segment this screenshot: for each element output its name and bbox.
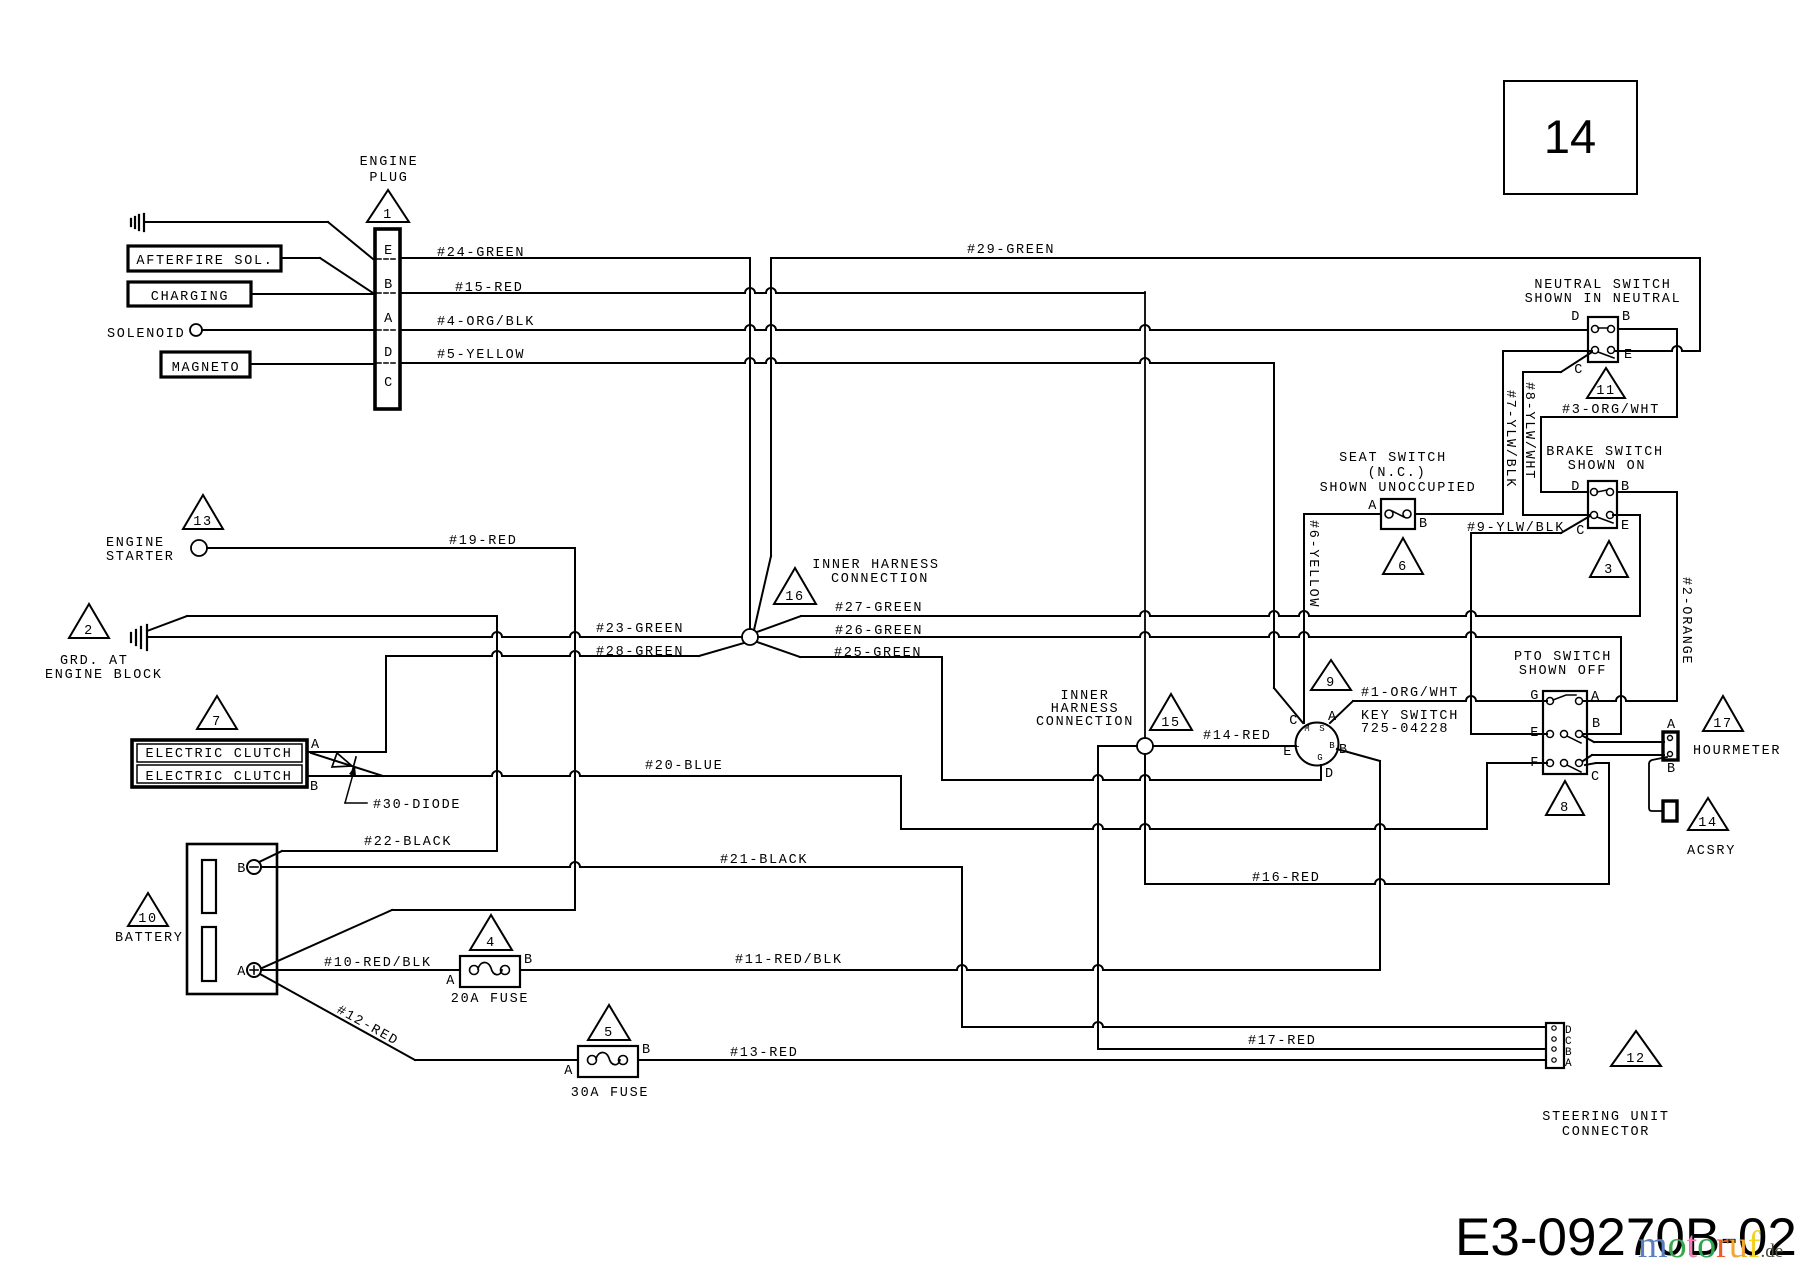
PTO contacts row F-C: [1547, 760, 1554, 767]
svg-text:#22-BLACK: #22-BLACK: [364, 835, 452, 850]
wire #22-BLACK: [259, 851, 282, 862]
svg-text:#8-YLW/WHT: #8-YLW/WHT: [1521, 382, 1536, 480]
svg-text:INNER HARNESS: INNER HARNESS: [812, 558, 939, 573]
svg-text:#10-RED/BLK: #10-RED/BLK: [324, 956, 432, 971]
wire #8-YLW/WHT vertical: [1522, 372, 1524, 515]
wire node 15 west branch: [1098, 745, 1137, 747]
svg-text:GRD. AT: GRD. AT: [60, 654, 129, 669]
wire #21-BLACK: [261, 862, 962, 867]
wire #20-BLUE: [309, 771, 901, 776]
triangle ref 7 (electric clutch): [197, 696, 237, 729]
svg-text:ENGINE: ENGINE: [106, 536, 165, 551]
wire #2-ORANGE vertical: [1676, 492, 1678, 701]
fuse F4 element: [470, 966, 479, 975]
wire #27-GREEN: [757, 616, 801, 632]
svg-text:#27-GREEN: #27-GREEN: [835, 601, 923, 616]
brake switch S3 box: [1588, 481, 1617, 528]
steering pin B: [1552, 1047, 1556, 1051]
svg-text:#1-ORG/WHT: #1-ORG/WHT: [1361, 686, 1459, 701]
wire #19-RED vertical: [574, 548, 576, 910]
wire key switch D feed: [942, 775, 1321, 780]
wire #29-GREEN: [771, 257, 1700, 259]
svg-text:#11-RED/BLK: #11-RED/BLK: [735, 953, 843, 968]
component box AFTERFIRE SOL.: [128, 246, 281, 271]
svg-text:#4-ORG/BLK: #4-ORG/BLK: [437, 315, 535, 330]
svg-text:D: D: [1571, 480, 1581, 495]
neutral switch contacts bottom: [1592, 347, 1599, 354]
svg-text:SOLENOID: SOLENOID: [107, 327, 185, 342]
svg-text:#3-ORG/WHT: #3-ORG/WHT: [1562, 403, 1660, 418]
svg-text:BRAKE SWITCH: BRAKE SWITCH: [1546, 445, 1664, 460]
triangle ref 2 (ground at engine block): [69, 604, 109, 638]
triangle ref 4 (20A fuse): [470, 915, 512, 950]
triangle ref 5 (30A fuse): [588, 1005, 630, 1040]
wire #20-BLUE lower run to PTO F: [901, 824, 1487, 829]
svg-text:CHARGING: CHARGING: [151, 290, 229, 305]
wire #6-YELLOW horizontal to seat A: [1304, 513, 1381, 515]
diode leader line: [345, 767, 355, 803]
triangle ref 6 (seat switch): [1383, 538, 1423, 574]
wire seat B to neutral E riser (#7): [1415, 513, 1503, 515]
svg-text:B: B: [237, 862, 247, 877]
svg-text:12: 12: [1626, 1052, 1646, 1067]
svg-text:STARTER: STARTER: [106, 550, 175, 565]
wire #8 to brake C: [1523, 514, 1590, 516]
svg-text:G: G: [1530, 689, 1540, 704]
wire solenoid to plug pin A: [202, 329, 375, 331]
wire #15-RED vertical to node 15: [1144, 292, 1146, 738]
svg-text:C: C: [1576, 524, 1586, 539]
svg-text:E: E: [1530, 726, 1540, 741]
pin dashes inside plug: [377, 258, 398, 260]
wire afterfire sol to plug pin B: [281, 257, 320, 259]
svg-text:PLUG: PLUG: [369, 171, 408, 186]
sheet number box 14: [1504, 81, 1637, 194]
wire #7-YLW/BLK vertical: [1502, 351, 1504, 514]
svg-text:CONNECTION: CONNECTION: [1036, 715, 1134, 730]
wire #3-ORG/WHT: [1541, 416, 1677, 418]
svg-text:5: 5: [604, 1026, 614, 1041]
svg-text:E: E: [1621, 519, 1631, 534]
svg-text:B: B: [524, 953, 534, 968]
wire neutral E west (#7 feed): [1503, 350, 1592, 352]
svg-text:#5-YELLOW: #5-YELLOW: [437, 348, 525, 363]
wire #28-GREEN branch vertical: [496, 616, 498, 851]
wire charging to plug pin B: [251, 293, 373, 295]
wire #15-RED: [400, 288, 1145, 293]
svg-text:MAGNETO: MAGNETO: [172, 361, 241, 376]
svg-text:A: A: [1565, 1058, 1572, 1070]
svg-text:CONNECTION: CONNECTION: [831, 572, 929, 587]
triangle ref 13 (engine starter): [183, 495, 223, 529]
triangle ref 10 (battery): [128, 893, 168, 926]
wire #25-GREEN vertical drop: [941, 657, 943, 780]
svg-text:#24-GREEN: #24-GREEN: [437, 246, 525, 261]
brake switch contacts bottom: [1591, 512, 1598, 519]
wire neutral B east: [1618, 328, 1677, 330]
svg-text:STEERING UNIT: STEERING UNIT: [1542, 1110, 1669, 1125]
svg-text:#19-RED: #19-RED: [449, 534, 518, 549]
svg-text:(N.C.): (N.C.): [1368, 466, 1427, 481]
svg-text:20A FUSE: 20A FUSE: [451, 992, 529, 1007]
svg-text:#6-YELLOW: #6-YELLOW: [1305, 520, 1320, 608]
svg-text:#9-YLW/BLK: #9-YLW/BLK: [1467, 521, 1565, 536]
brake switch contacts top: [1591, 489, 1598, 496]
fuse F4 box: [460, 956, 520, 987]
svg-text:15: 15: [1161, 716, 1181, 731]
wire brake B east to #2 riser: [1617, 491, 1677, 493]
wire ground to upper branch: [147, 616, 187, 631]
wire #3-ORG/WHT drop to brake D: [1540, 417, 1542, 492]
svg-text:#15-RED: #15-RED: [455, 281, 524, 296]
svg-text:G: G: [1317, 753, 1322, 763]
svg-text:B: B: [1592, 717, 1602, 732]
svg-text:9: 9: [1326, 676, 1336, 691]
battery terminal A positive: [247, 963, 261, 977]
wire #12-RED diagonal: [260, 974, 415, 1060]
svg-text:ELECTRIC CLUTCH: ELECTRIC CLUTCH: [145, 747, 292, 762]
seat switch contacts: [1385, 510, 1393, 518]
node 15 junction circle: [1137, 738, 1153, 754]
svg-text:16: 16: [785, 590, 805, 605]
svg-text:SHOWN UNOCCUPIED: SHOWN UNOCCUPIED: [1320, 481, 1477, 496]
wire #16-RED riser to PTO C: [1608, 763, 1610, 884]
svg-text:A: A: [384, 312, 394, 327]
svg-text:14: 14: [1698, 816, 1718, 831]
wire hourmeter B to ACSRY: [1649, 757, 1667, 811]
wire #5-YELLOW: [400, 358, 1274, 363]
svg-text:NEUTRAL SWITCH: NEUTRAL SWITCH: [1534, 278, 1671, 293]
svg-text:HOURMETER: HOURMETER: [1693, 744, 1781, 759]
battery cell slot 1: [202, 860, 216, 913]
svg-text:PTO SWITCH: PTO SWITCH: [1514, 650, 1612, 665]
svg-text:ENGINE BLOCK: ENGINE BLOCK: [45, 668, 163, 683]
wire #9-YLW/BLK: [1471, 532, 1561, 534]
svg-text:#17-RED: #17-RED: [1248, 1034, 1317, 1049]
wire #9 drop to PTO E: [1470, 533, 1472, 734]
svg-text:#26-GREEN: #26-GREEN: [835, 624, 923, 639]
svg-text:SEAT SWITCH: SEAT SWITCH: [1339, 451, 1447, 466]
hourmeter box: [1663, 732, 1678, 760]
svg-text:E: E: [1283, 745, 1293, 760]
wire PTO B east: [1583, 733, 1621, 735]
wire brake E east: [1613, 514, 1640, 516]
steering pin A: [1552, 1058, 1556, 1062]
svg-text:A: A: [1368, 499, 1378, 514]
battery terminal B negative: [247, 860, 261, 874]
wire #16-RED: [1145, 879, 1609, 884]
triangle ref 8 (PTO switch): [1546, 781, 1584, 815]
svg-text:ACSRY: ACSRY: [1687, 844, 1736, 859]
triangle ref 15: [1150, 694, 1192, 730]
svg-text:#28-GREEN: #28-GREEN: [596, 645, 684, 660]
svg-text:D: D: [384, 346, 394, 361]
wire key B to riser: [1337, 749, 1380, 761]
svg-text:8: 8: [1560, 801, 1570, 816]
svg-text:6: 6: [1398, 560, 1408, 575]
triangle ref 17 (hourmeter): [1703, 696, 1743, 731]
svg-text:#16-RED: #16-RED: [1252, 871, 1321, 886]
hourmeter pin A: [1668, 736, 1673, 741]
wire neutral C to #8 riser: [1523, 371, 1561, 373]
wire node 15 south vertical to #16-RED: [1144, 754, 1146, 884]
svg-text:A: A: [237, 965, 247, 980]
svg-text:#21-BLACK: #21-BLACK: [720, 853, 808, 868]
svg-text:B: B: [1329, 741, 1335, 751]
wire neutral C diagonal: [1561, 352, 1592, 372]
svg-text:S: S: [1319, 724, 1324, 734]
svg-text:SHOWN ON: SHOWN ON: [1568, 459, 1646, 474]
svg-text:#23-GREEN: #23-GREEN: [596, 622, 684, 637]
svg-text:D: D: [1325, 767, 1335, 782]
svg-text:ENGINE: ENGINE: [360, 155, 419, 170]
svg-text:B: B: [384, 278, 394, 293]
PTO contacts row E-B: [1547, 731, 1554, 738]
wire steering D feed: [962, 1022, 1546, 1027]
PTO contacts row G-A: [1547, 698, 1554, 705]
triangle ref 3 (brake switch): [1590, 541, 1628, 577]
triangle ref 16: [774, 568, 816, 604]
svg-text:ELECTRIC CLUTCH: ELECTRIC CLUTCH: [145, 770, 292, 785]
wire #25-GREEN: [757, 642, 800, 657]
svg-text:#2-ORANGE: #2-ORANGE: [1678, 577, 1693, 665]
svg-text:14: 14: [1544, 110, 1596, 163]
diode D30 symbol: [332, 753, 352, 767]
wire PTO B to hourmeter A: [1583, 736, 1594, 742]
steering pin D: [1552, 1026, 1556, 1030]
steering unit connector box: [1546, 1023, 1564, 1068]
node 16 junction circle: [742, 629, 758, 645]
fuse F5 element: [588, 1056, 597, 1065]
svg-text:30A FUSE: 30A FUSE: [571, 1086, 649, 1101]
svg-text:2: 2: [84, 624, 94, 639]
wire #20-BLUE vertical jog: [900, 776, 902, 829]
wire ground to plug pin E: [144, 221, 328, 223]
wire PTO A east to #2-ORANGE: [1583, 696, 1677, 701]
svg-text:A: A: [1667, 718, 1677, 733]
wire clutch A to #28-GREEN riser: [309, 751, 386, 753]
wire key B riser vertical: [1379, 761, 1381, 970]
svg-text:17: 17: [1713, 717, 1733, 732]
component box CHARGING: [128, 282, 251, 306]
wire #4-ORG/BLK: [400, 325, 1588, 330]
battery cell slot 2: [202, 927, 216, 981]
wire #19-RED to battery positive: [392, 909, 575, 911]
svg-text:725-04228: 725-04228: [1361, 722, 1449, 737]
connector J1 engine plug body: [375, 229, 400, 409]
svg-text:10: 10: [138, 912, 158, 927]
wire #13-RED: [638, 1059, 1546, 1061]
wire #26-GREEN drop to PTO B: [1620, 637, 1622, 734]
key switch S9 body circle: [1296, 723, 1339, 766]
wire #12-RED to fuse 5: [415, 1059, 578, 1061]
wire #26-GREEN: [758, 632, 1621, 637]
svg-text:B: B: [1622, 310, 1632, 325]
wire #23-GREEN: [147, 632, 742, 637]
PTO switch S8 box: [1543, 691, 1587, 774]
terminal circle solenoid: [190, 324, 202, 336]
wire #29-GREEN riser from node 16: [770, 258, 772, 556]
wire #6-YELLOW vertical to key C: [1303, 514, 1305, 723]
svg-text:B: B: [1419, 517, 1429, 532]
component box ELECTRIC CLUTCH (double): [132, 740, 307, 787]
steering pin C: [1552, 1037, 1556, 1041]
wire #5-YELLOW vertical and diagonal to key C: [1273, 363, 1275, 688]
svg-text:11: 11: [1596, 384, 1616, 399]
wire neutral E east to #29: [1615, 346, 1700, 351]
svg-text:#30-DIODE: #30-DIODE: [373, 798, 461, 813]
svg-text:3: 3: [1604, 563, 1614, 578]
wire #24-GREEN vertical drop to node 16: [749, 258, 751, 629]
wire #28-GREEN: [386, 651, 699, 656]
svg-text:SHOWN OFF: SHOWN OFF: [1519, 664, 1607, 679]
svg-text:D: D: [1571, 310, 1581, 325]
wire #29-GREEN drop to neutral E: [1699, 258, 1701, 351]
seat switch S6 box: [1381, 499, 1415, 529]
neutral switch S11 box: [1588, 317, 1618, 362]
svg-text:AFTERFIRE SOL.: AFTERFIRE SOL.: [136, 254, 273, 269]
svg-text:#14-RED: #14-RED: [1203, 729, 1272, 744]
wire node 15 west vertical: [1097, 746, 1099, 1049]
svg-text:A: A: [446, 974, 456, 989]
svg-text:B: B: [1667, 762, 1677, 777]
svg-text:B: B: [310, 780, 320, 795]
triangle ref 14 (ACSRY): [1688, 798, 1728, 830]
svg-text:C: C: [1591, 770, 1601, 785]
svg-text:#13-RED: #13-RED: [730, 1046, 799, 1061]
fuse F5 box: [578, 1046, 638, 1077]
wire #24-GREEN: [400, 257, 750, 259]
svg-text:A: A: [311, 738, 321, 753]
wire neutral B riser (#3) vertical: [1676, 329, 1678, 417]
ground symbol G2: [131, 625, 147, 650]
svg-text:#7-YLW/BLK: #7-YLW/BLK: [1502, 390, 1517, 488]
ACSRY connector box: [1663, 801, 1677, 821]
wire #10-RED/BLK: [261, 969, 460, 971]
wire magneto to plug pin D: [250, 363, 375, 365]
triangle ref 1 (engine plug): [367, 190, 409, 222]
svg-text:13: 13: [193, 515, 213, 530]
component box MAGNETO: [161, 352, 250, 377]
svg-text:B: B: [642, 1043, 652, 1058]
svg-text:#25-GREEN: #25-GREEN: [834, 646, 922, 661]
svg-text:1: 1: [383, 208, 393, 223]
wire #21-BLACK vertical drop: [961, 867, 963, 1027]
wire #14-RED: [1153, 745, 1296, 747]
battery box: [187, 844, 277, 994]
svg-text:4: 4: [486, 936, 496, 951]
wire #1-ORG/WHT diagonal: [1330, 701, 1353, 723]
svg-text:CONNECTOR: CONNECTOR: [1562, 1125, 1650, 1140]
svg-text:C: C: [384, 376, 394, 391]
svg-text:A: A: [564, 1064, 574, 1079]
svg-text:F: F: [1530, 756, 1540, 771]
triangle ref 9 (key switch): [1311, 660, 1351, 690]
wire #19-RED: [207, 547, 575, 549]
wire brake E riser to #27: [1639, 515, 1641, 616]
ground symbol G1: [131, 214, 144, 231]
svg-text:M: M: [1304, 724, 1309, 734]
svg-text:#20-BLUE: #20-BLUE: [645, 759, 723, 774]
triangle ref 12 (steering unit): [1611, 1031, 1661, 1066]
neutral switch contacts top: [1592, 326, 1599, 333]
svg-text:A: A: [1591, 690, 1601, 705]
svg-text:SHOWN IN NEUTRAL: SHOWN IN NEUTRAL: [1525, 292, 1682, 307]
wire #17-RED: [1098, 1048, 1546, 1050]
terminal circle engine starter: [191, 540, 207, 556]
svg-text:E: E: [384, 244, 394, 259]
wire PTO C to hourmeter B: [1583, 755, 1592, 761]
diode D30 wire across clutch: [311, 753, 383, 776]
svg-text:L: L: [1294, 740, 1299, 750]
hourmeter pin B: [1668, 752, 1673, 757]
svg-text:C: C: [1574, 363, 1584, 378]
svg-text:7: 7: [212, 715, 222, 730]
svg-text:BATTERY: BATTERY: [115, 931, 184, 946]
wire #11-RED/BLK: [520, 965, 1380, 970]
wire #1-ORG/WHT: [1353, 696, 1547, 701]
triangle ref 11 (neutral switch): [1587, 368, 1625, 398]
wire key D drop: [1320, 765, 1322, 780]
svg-text:#29-GREEN: #29-GREEN: [967, 243, 1055, 258]
